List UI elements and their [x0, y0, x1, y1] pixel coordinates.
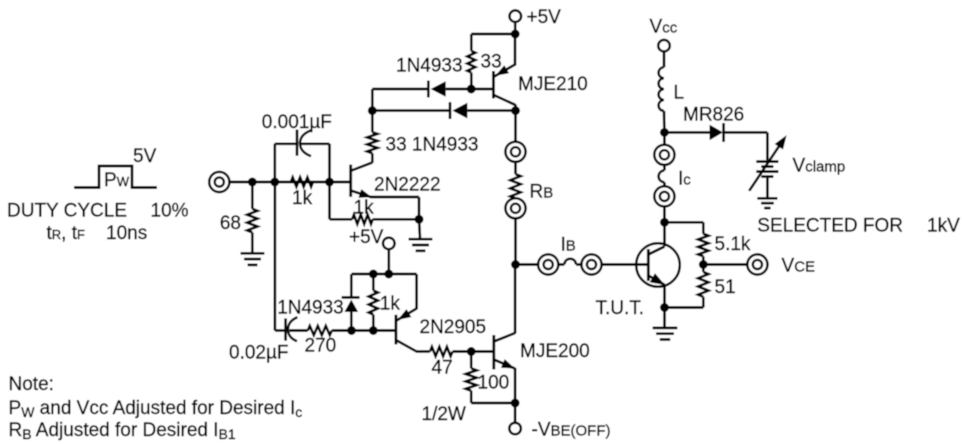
label 1N4933 (vertical) — [277, 298, 344, 319]
node collector junction — [660, 218, 669, 227]
resistor 1k (pull-up) — [369, 274, 378, 331]
resistor 270 — [308, 326, 332, 335]
wire +5V lower down — [387, 249, 390, 274]
label VCE — [782, 256, 816, 277]
svg-text:VCE: VCE — [782, 256, 816, 277]
node -VBE — [511, 399, 520, 408]
note line 1 — [9, 398, 303, 420]
wire upper diode row — [372, 88, 493, 91]
resistor 100 — [466, 352, 477, 404]
wire to RB terminal — [514, 111, 517, 142]
label DUTY CYCLE 10% — [7, 201, 189, 222]
svg-text:1N4933: 1N4933 — [396, 56, 463, 77]
node 1k pull bottom — [369, 326, 378, 335]
node 47-100 — [467, 347, 476, 356]
label +5V (top) — [527, 7, 562, 28]
svg-text:47: 47 — [432, 358, 453, 379]
svg-text:Vcc: Vcc — [650, 17, 678, 38]
wire 2N2222 emitter — [371, 197, 420, 219]
svg-text:10ns: 10ns — [106, 223, 147, 244]
terminal Vcc — [658, 40, 670, 52]
label 0.001uF — [262, 112, 332, 133]
svg-text:IB: IB — [561, 235, 576, 256]
svg-text:+5V: +5V — [527, 7, 562, 28]
resistor 33 (2N2222 collector) — [367, 111, 377, 163]
label 33 (from +5V) — [481, 52, 502, 73]
svg-text:2N2905: 2N2905 — [420, 317, 487, 338]
wire 47 to MJE200 — [453, 350, 494, 353]
svg-text:SELECTED FOR: SELECTED FOR — [757, 216, 903, 237]
wire 1k row — [330, 218, 420, 221]
svg-text:10%: 10% — [151, 201, 189, 222]
wire clamp top row — [352, 273, 417, 276]
terminal IB right — [581, 254, 601, 274]
node input-68 — [248, 178, 257, 187]
wire MJE210 emitter — [514, 34, 517, 66]
wire Vcc down — [663, 52, 666, 68]
label Vclamp — [793, 156, 846, 177]
wire bottom row — [471, 402, 515, 405]
label MR826 — [683, 105, 744, 126]
pulse source waveform — [74, 166, 157, 188]
svg-text:Note:: Note: — [9, 374, 54, 395]
transistor Q3 2N2905 — [396, 309, 417, 352]
wire MJE210 collector — [514, 105, 517, 111]
svg-text:DUTY CYCLE: DUTY CYCLE — [7, 201, 127, 222]
svg-text:T.U.T.: T.U.T. — [596, 298, 645, 319]
svg-text:tR, tF: tR, tF — [47, 223, 86, 244]
node 1k pull top — [369, 270, 378, 279]
resistor 1k (series input) — [291, 177, 313, 186]
node lower diode left — [368, 106, 377, 115]
wire Ic top — [663, 132, 666, 145]
label IB — [561, 235, 576, 256]
svg-text:+5V: +5V — [349, 227, 384, 248]
svg-text:MJE210: MJE210 — [518, 74, 588, 95]
label 68 — [220, 213, 241, 234]
svg-text:RB​ Adjusted for Desired IB1​: RB​ Adjusted for Desired IB1​ — [9, 420, 236, 442]
capacitor C1 0.001uF — [297, 130, 312, 157]
label tR, tF 10ns — [47, 223, 148, 244]
svg-text:1k: 1k — [292, 188, 313, 209]
svg-text:33 1N4933: 33 1N4933 — [386, 134, 479, 155]
label MJE210 — [518, 74, 588, 95]
svg-text:270: 270 — [305, 336, 337, 357]
wire cap 0.001uF left leg — [275, 144, 297, 182]
battery Vclamp — [756, 162, 778, 177]
label 33 1N4933 — [386, 134, 479, 155]
wire to Vclamp — [766, 132, 769, 160]
label Pw (pulse width) — [104, 170, 130, 191]
terminal RB bottom — [505, 198, 525, 218]
diode MR826 — [710, 123, 724, 142]
label +5V (lower) — [349, 227, 384, 248]
terminal IB left — [538, 254, 558, 274]
transistor Q5 T.U.T. — [648, 247, 665, 286]
resistor 1k (2N2222 base-emitter) — [352, 215, 373, 224]
svg-text:51: 51 — [715, 277, 736, 298]
label L — [674, 83, 685, 104]
terminal Ic bottom — [654, 186, 674, 206]
node VCE — [699, 260, 708, 269]
wire to ground (emitter) — [419, 219, 420, 238]
label 0.02uF — [229, 343, 289, 364]
svg-text:MR826: MR826 — [683, 105, 744, 126]
label 100 — [478, 373, 510, 394]
capacitor C2 0.02uF — [275, 182, 298, 341]
label 1k (base-emitter) — [354, 198, 375, 219]
svg-text:Ic: Ic — [678, 169, 691, 190]
wire Ic loop — [659, 165, 665, 187]
svg-text:PW: PW — [104, 170, 130, 191]
svg-text:33: 33 — [481, 52, 502, 73]
resistor 33 (from +5V) — [467, 34, 515, 89]
wire RB to node — [514, 218, 517, 264]
input terminal — [209, 172, 229, 192]
resistor 47 — [430, 347, 453, 356]
label 1/2W — [422, 404, 466, 425]
label 1N4933 (upper) — [396, 56, 463, 77]
wire emitter to ground — [663, 308, 666, 328]
label -VBE(OFF) — [532, 420, 611, 441]
label 1k (series input) — [292, 188, 313, 209]
wire MJE200 emitter — [514, 368, 517, 403]
note line 2 — [9, 420, 236, 442]
terminal VCE — [747, 254, 767, 274]
wire left vertical diodes — [371, 89, 374, 111]
inductor L — [659, 67, 664, 111]
wire 51 bottom — [665, 297, 704, 308]
node base junction — [325, 178, 334, 187]
resistor 51 — [698, 272, 708, 297]
wire to -VBE terminal — [514, 403, 517, 423]
terminal RB top — [505, 142, 525, 162]
wire T.U.T. collector — [663, 222, 666, 246]
label 2N2222 — [374, 175, 441, 196]
svg-text:RB: RB — [530, 182, 554, 203]
diode D2 1N4933 (lower) — [450, 102, 467, 119]
node +5V lower — [384, 270, 393, 279]
wire Ic bottom — [663, 206, 666, 222]
svg-text:-VBE(OFF): -VBE(OFF) — [532, 420, 611, 441]
resistor RB — [510, 162, 520, 199]
transistor Q2 MJE210 — [493, 65, 515, 106]
diode D1 1N4933 (upper) — [428, 81, 445, 98]
label 1k (pull-up) — [380, 294, 401, 315]
note heading — [9, 374, 54, 395]
transistor Q1 2N2222 — [351, 163, 373, 198]
terminal +5V (top) — [510, 10, 522, 22]
svg-text:5V: 5V — [133, 146, 157, 167]
node 33-diode — [467, 85, 476, 94]
wire 5.1k-51 — [702, 256, 705, 272]
svg-text:1k: 1k — [354, 198, 375, 219]
node lower diode right — [511, 106, 520, 115]
wire MR826 anode — [664, 131, 709, 134]
svg-text:1k: 1k — [380, 294, 401, 315]
ground (T.U.T. emitter) — [653, 328, 678, 340]
label 5V (pulse amplitude) — [133, 146, 157, 167]
transistor Q4 MJE200 — [494, 333, 515, 369]
svg-text:0.02µF: 0.02µF — [229, 343, 289, 364]
svg-text:0.001µF: 0.001µF — [262, 112, 332, 133]
svg-text:L: L — [674, 83, 685, 104]
label Vcc — [650, 17, 678, 38]
node input-caps — [270, 178, 279, 187]
svg-text:1kV: 1kV — [927, 216, 960, 237]
node emitter-ground — [415, 215, 424, 224]
svg-text:Vclamp: Vclamp — [793, 156, 846, 177]
wire lower diode row — [372, 109, 515, 112]
wire IB left — [516, 263, 539, 266]
ground (2N2222 emitter) — [409, 239, 433, 251]
svg-text:PW​ and Vcc Adjusted for Desir: PW​ and Vcc Adjusted for Desired Ic​ — [9, 398, 303, 420]
label 5.1k — [715, 234, 751, 255]
transistor T.U.T. circle — [636, 243, 680, 287]
resistor 5.1k — [698, 234, 708, 256]
node MR826 junction — [660, 128, 669, 137]
label 51 — [715, 277, 736, 298]
svg-text:100: 100 — [478, 373, 510, 394]
wire input row — [229, 181, 330, 184]
label RB — [530, 182, 554, 203]
label Ic — [678, 169, 691, 190]
node IB junction — [511, 260, 520, 269]
svg-text:2N2222: 2N2222 — [374, 175, 441, 196]
terminal Ic top — [654, 145, 674, 165]
label 47 — [432, 358, 453, 379]
ground (68 resistor) — [241, 253, 265, 265]
adjustment arrow (Vclamp) — [749, 135, 786, 191]
diode D3 1N4933 (vertical) — [342, 274, 360, 331]
wire IB loop — [558, 259, 582, 265]
wire base 2N2222 — [330, 181, 351, 184]
wire to 5.1k — [665, 222, 704, 234]
svg-text:1N4933: 1N4933 — [277, 298, 344, 319]
wire 2N2905 collector — [416, 350, 430, 353]
wire cap 0.001uF right leg — [301, 144, 330, 220]
svg-text:5.1k: 5.1k — [715, 234, 751, 255]
svg-text:MJE200: MJE200 — [520, 341, 590, 362]
label SELECTED FOR 1kV — [757, 216, 960, 237]
label T.U.T. — [596, 298, 645, 319]
node +5V top — [511, 30, 520, 39]
wire 2N2905 emitter — [415, 274, 418, 309]
wire T.U.T. emitter — [663, 284, 666, 308]
wire +5V down — [514, 22, 517, 34]
node diode-270 — [347, 326, 356, 335]
wire IB to T.U.T. base — [601, 263, 648, 266]
wire VCE — [703, 263, 747, 266]
resistor 68 (to ground) — [247, 182, 257, 253]
svg-text:1/2W: 1/2W — [422, 404, 466, 425]
label 270 — [305, 336, 337, 357]
svg-text:68: 68 — [220, 213, 241, 234]
label 2N2905 — [420, 317, 487, 338]
wire MR826 cathode — [724, 131, 768, 134]
wire Vclamp to ground — [766, 178, 769, 197]
wire MJE200 collector — [514, 265, 517, 334]
wire 270 row — [290, 329, 397, 332]
ground (Vclamp) — [757, 198, 777, 208]
terminal +5V (lower) — [383, 238, 395, 250]
label MJE200 — [520, 341, 590, 362]
terminal -VBE(OFF) — [509, 423, 521, 435]
wire L to node — [663, 111, 666, 132]
node T.U.T. emitter — [660, 303, 669, 312]
